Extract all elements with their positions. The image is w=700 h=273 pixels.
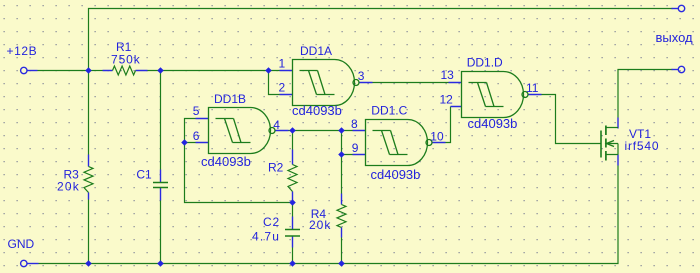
pin stub output terminal bottom <box>672 69 679 71</box>
wire DD1C output up to DD1D pin12 <box>446 107 451 143</box>
node junction at 160,70 <box>157 67 164 74</box>
node junction at 292,202 <box>289 199 296 206</box>
svg-text:12: 12 <box>440 93 454 107</box>
wire VT1 drain to output terminal <box>618 70 673 118</box>
terminal output bottom <box>678 66 684 72</box>
svg-text:DD1B: DD1B <box>214 92 246 106</box>
capacitor C1 <box>153 183 168 188</box>
terminal GND <box>21 260 27 266</box>
resistor R1 <box>113 66 136 75</box>
wire R1 right to DD1A input node <box>148 70 280 72</box>
wire DD1A input tie vertical <box>269 71 280 95</box>
wire DD1B input node <box>185 119 293 203</box>
pin stubs DD1B <box>196 119 289 143</box>
resistor R4 <box>337 205 346 228</box>
svg-text:C2: C2 <box>263 215 280 229</box>
svg-text:C1: C1 <box>136 167 152 181</box>
svg-text:750k: 750k <box>111 52 141 66</box>
wire R2 leads <box>292 131 294 150</box>
svg-text:10: 10 <box>430 130 444 144</box>
svg-text:+12В: +12В <box>7 44 38 58</box>
node junction at 88,263 <box>85 260 92 267</box>
gate DD1C body <box>366 120 433 166</box>
node junction at 341,130 <box>338 127 345 134</box>
svg-text:9: 9 <box>352 141 359 155</box>
gate DD1D body <box>462 72 529 118</box>
pin stub GND terminal <box>28 263 39 265</box>
wire DD1B output row <box>289 130 342 132</box>
svg-text:cd4093b: cd4093b <box>201 154 251 169</box>
wire +12V rail top <box>89 9 673 71</box>
pin stub output terminal top <box>672 8 679 10</box>
gate DD1A body <box>293 60 360 106</box>
wire C2 leads <box>292 203 294 264</box>
capacitor C2 <box>285 230 300 237</box>
node junction at 341,154 <box>338 151 345 158</box>
svg-text:DD1.D: DD1.D <box>467 56 503 70</box>
svg-text:cd4093b: cd4093b <box>468 116 518 131</box>
wire +12B terminal to junction <box>38 70 89 72</box>
wire DD1A output to DD1D pin13 <box>373 82 449 84</box>
svg-text:3: 3 <box>358 69 365 83</box>
wire R1 left lead row <box>89 70 103 72</box>
svg-text:20k: 20k <box>309 218 331 232</box>
wire C1 vertical leads <box>160 71 162 264</box>
resistor R3 <box>84 167 93 193</box>
node junction at 184,142 <box>181 139 188 146</box>
svg-text:6: 6 <box>193 129 200 143</box>
node junction at 88,70 <box>85 67 92 74</box>
pin stubs R2 <box>292 150 294 203</box>
pin stubs VT1 <box>617 118 619 166</box>
wire R4 leads <box>341 155 343 264</box>
wire VT1 source down and ground bottom rail <box>39 166 619 264</box>
svg-text:cd4093b: cd4093b <box>371 167 421 182</box>
svg-text:11: 11 <box>526 81 539 95</box>
pin stubs DD1D <box>449 83 542 107</box>
terminal +12B <box>21 67 27 73</box>
node junction at 292,130 <box>289 127 296 134</box>
wire DD1C input tie <box>342 131 353 155</box>
pin stubs C1 <box>160 170 162 201</box>
pin stubs DD1A <box>280 71 373 95</box>
svg-text:DD1A: DD1A <box>300 44 332 58</box>
pin stub +12B terminal <box>28 70 38 72</box>
node junction at 341,263 <box>338 260 345 267</box>
svg-text:4: 4 <box>273 118 280 132</box>
svg-text:DD1.C: DD1.C <box>371 104 407 118</box>
node junction at 268,70 <box>265 67 272 74</box>
svg-text:4.7u: 4.7u <box>252 230 280 244</box>
pin stubs R1 <box>103 70 148 72</box>
transistor VT1 MOSFET <box>601 126 618 161</box>
svg-text:irf540: irf540 <box>625 139 660 153</box>
resistor R2 <box>288 165 297 192</box>
svg-text:R2: R2 <box>268 161 284 175</box>
svg-text:cd4093b: cd4093b <box>292 103 342 118</box>
pin stubs C2 <box>292 217 294 248</box>
svg-text:8: 8 <box>351 117 358 131</box>
wire DD1D output to gate of VT1 <box>542 95 602 144</box>
node junction diamonds <box>85 67 345 267</box>
svg-text:5: 5 <box>193 104 200 118</box>
pin stubs R3 <box>88 155 90 200</box>
svg-text:выход: выход <box>656 30 694 45</box>
node junction at 160,263 <box>157 260 164 267</box>
svg-text:1: 1 <box>279 57 286 71</box>
svg-text:2: 2 <box>279 81 286 95</box>
svg-text:13: 13 <box>441 68 455 82</box>
gate DD1B body <box>209 108 276 154</box>
svg-text:20k: 20k <box>57 180 80 194</box>
terminal output top <box>678 5 684 11</box>
pin stubs R4 <box>341 194 343 238</box>
wire R3 vertical leads <box>88 71 90 264</box>
svg-text:GND: GND <box>8 237 35 251</box>
pin stubs DD1C <box>353 131 446 155</box>
node junction at 292,263 <box>289 260 296 267</box>
